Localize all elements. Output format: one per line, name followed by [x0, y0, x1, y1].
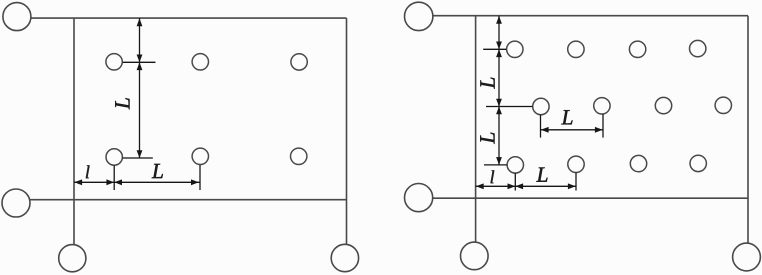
left plate extension tick below hole B1 — [113, 166, 115, 190]
right plate bottom dimension line — [476, 185, 576, 187]
right plate vertical dimension lower label L — [480, 133, 494, 144]
right plate tick at row 1 — [483, 48, 506, 50]
left plate pitch label L — [152, 164, 163, 178]
right plate bottom dimension arrowheads — [476, 183, 576, 189]
left plate top edge — [31, 17, 347, 19]
left plate extension tick below hole B2 — [199, 165, 201, 190]
right plate vertical dimension arrowheads — [496, 16, 502, 165]
left plate pin circle top-left — [3, 3, 31, 31]
left plate right edge — [346, 18, 348, 245]
right plate extension tick below hole R2-2 — [602, 114, 604, 137]
right plate row-2 pitch dimension arrowheads — [541, 127, 603, 133]
right plate bolt hole R1-3 — [629, 41, 645, 57]
left plate tick at hole B1 — [123, 157, 153, 159]
right plate bolt hole R2-3 — [655, 97, 671, 113]
right plate extension tick below hole R3-2 — [575, 173, 577, 191]
right plate bolt hole R2-2 — [594, 98, 610, 114]
left plate vertical dimension label L — [115, 98, 129, 109]
right plate pin circle top-left — [405, 2, 433, 30]
left plate pin circle bottom-right — [331, 244, 358, 271]
right plate bolt hole R2-1 — [533, 98, 549, 114]
left plate bottom dimension arrowheads — [74, 179, 199, 185]
right plate row-2 pitch dimension line — [541, 129, 604, 131]
left plate bolt hole A2 — [192, 54, 208, 70]
left plate vertical dimension arrowheads — [137, 18, 143, 158]
right plate right edge — [747, 16, 749, 244]
left plate edge-distance label l — [86, 165, 90, 178]
left plate pin circle bottom-left — [59, 245, 86, 272]
right plate bolt hole R1-1 — [507, 41, 523, 57]
right plate bolt hole R1-2 — [568, 41, 584, 57]
right plate tick at row 2 — [486, 106, 532, 108]
left plate bottom dimension line — [74, 181, 200, 183]
right plate bolt hole R3-2 — [568, 156, 584, 172]
right plate extension tick below hole R2-1 — [540, 115, 542, 138]
right plate pitch label L — [536, 168, 547, 182]
right plate bolt hole R3-1 — [507, 157, 523, 173]
right plate extension tick below hole R3-1 — [514, 173, 516, 191]
right plate tick at row 3 — [484, 164, 507, 166]
left plate left edge — [73, 18, 75, 245]
right plate edge-distance label l — [491, 170, 495, 183]
right plate vertical dimension line — [498, 16, 500, 165]
left plate bolt hole B2 — [192, 148, 208, 164]
right plate bolt hole R3-3 — [630, 155, 646, 171]
right plate pin circle bottom-right — [733, 243, 761, 271]
left plate bolt hole B1 — [106, 149, 122, 165]
right plate top edge — [433, 15, 748, 17]
left plate bolt hole A3 — [291, 54, 307, 70]
right plate pin circle bottom-left — [461, 242, 489, 270]
left plate bolt hole B3 — [291, 148, 307, 164]
left plate bolt hole A1 — [106, 54, 122, 70]
right plate pin circle mid-left — [405, 184, 433, 212]
left plate tick at hole A1 — [123, 61, 156, 63]
left plate bottom edge — [30, 199, 347, 201]
left plate pin circle mid-left — [2, 189, 30, 217]
right plate bolt hole R1-4 — [690, 40, 706, 56]
right plate vertical dimension upper label L — [480, 78, 494, 89]
right plate bolt hole R3-4 — [690, 155, 706, 171]
left plate vertical dimension line — [139, 18, 141, 158]
right plate row-2 pitch label L — [561, 110, 572, 124]
right plate left edge — [475, 16, 477, 243]
right plate bolt hole R2-4 — [715, 97, 731, 113]
right plate bottom edge — [433, 197, 748, 199]
